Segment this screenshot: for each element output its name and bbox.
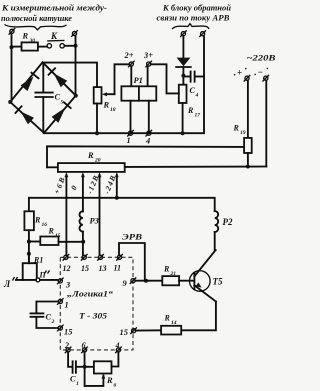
node -24V joins supply line	[115, 196, 119, 200]
terminal 3	[57, 278, 70, 290]
terminal 11	[114, 254, 123, 273]
svg-text:19: 19	[240, 130, 246, 136]
svg-text:13: 13	[99, 264, 107, 273]
terminal 4	[145, 130, 152, 146]
wire R16 bottom / node to R15	[28, 230, 30, 263]
svg-text:Р2: Р2	[223, 217, 233, 227]
wire R21 to T5 base	[179, 280, 193, 282]
wire R30 left lead	[12, 46, 22, 48]
wire VD5 cathode down to R17	[182, 67, 184, 85]
wire R17 bottom to minus rail	[182, 103, 184, 133]
supply line -24V to relay P2	[29, 198, 215, 211]
svg-text:Т - 305: Т - 305	[79, 312, 107, 321]
svg-text:R: R	[103, 101, 110, 110]
svg-text:4: 4	[195, 93, 199, 99]
svg-text:4: 4	[145, 137, 150, 146]
capacitor C1	[70, 361, 85, 387]
wire terminal 9 to R21	[135, 280, 162, 282]
svg-text:1: 1	[76, 381, 79, 387]
terminal 3+	[143, 51, 153, 67]
svg-text:R: R	[187, 106, 194, 115]
svg-text:ЭРВ: ЭРВ	[122, 233, 143, 242]
svg-text:R: R	[87, 151, 94, 160]
resistor R19	[233, 124, 252, 154]
wire terminal 2 down to C1	[68, 352, 72, 367]
R18 wiper arrow	[106, 93, 115, 95]
svg-text:15: 15	[120, 328, 128, 337]
svg-text:20: 20	[94, 158, 101, 164]
resistor R17	[179, 85, 200, 119]
svg-text:К блоку обратной: К блоку обратной	[162, 3, 231, 13]
wire R30 to switch	[38, 46, 47, 48]
terminal 4 bottom	[115, 341, 122, 353]
resistor R20	[47, 151, 125, 172]
wire R19 bottom to lower rail	[247, 153, 249, 167]
wire node to R6	[85, 366, 94, 368]
svg-text:6: 6	[82, 341, 86, 350]
diode VD2 upper-right	[54, 73, 68, 87]
terminal mains plus	[244, 75, 251, 82]
resistor R30	[22, 42, 38, 50]
svg-text:R: R	[163, 265, 170, 274]
svg-text:18: 18	[110, 107, 116, 113]
svg-text:R: R	[106, 376, 113, 385]
relay coil P2	[215, 211, 233, 250]
svg-text:11: 11	[114, 264, 122, 273]
svg-text:−: −	[258, 67, 263, 77]
svg-text:Р1: Р1	[134, 76, 143, 85]
node bridge right	[74, 94, 78, 98]
terminal X1 to measuring coil	[9, 28, 16, 35]
variable resistor R1 link assembly	[3, 254, 58, 289]
tap -12V from R20	[85, 172, 101, 255]
tap 0 from R20	[69, 172, 85, 212]
svg-text:4: 4	[115, 341, 120, 350]
rheostat R18	[94, 87, 116, 113]
terminal X2 above switch node	[71, 30, 78, 37]
wire 2+ down to relay P1 coil a	[130, 66, 132, 86]
svg-text:15: 15	[81, 264, 89, 273]
diode VD1 upper-left	[21, 77, 34, 92]
diode VD3 lower-left	[21, 111, 35, 124]
wire terminal 6 down to node	[84, 352, 86, 367]
wire R18 bottom to minus rail	[96, 104, 98, 134]
diode bridge VD1-VD4	[8, 62, 78, 133]
svg-text:R: R	[164, 314, 171, 323]
transistor T5	[190, 250, 223, 301]
svg-text:2: 2	[64, 341, 69, 350]
node ERV joins base wire	[144, 279, 148, 283]
R6 wiper loop	[85, 367, 106, 386]
wire T5 emitter down to R14 level	[181, 302, 216, 331]
svg-text:1: 1	[65, 301, 69, 310]
resistor R16	[24, 198, 47, 230]
node bridge left	[8, 100, 12, 104]
capacitor C5	[35, 63, 63, 133]
svg-text:1: 1	[127, 136, 131, 145]
svg-text:связи по току АРВ: связи по току АРВ	[157, 13, 230, 23]
svg-text:R: R	[34, 216, 41, 225]
svg-text:3+: 3+	[143, 51, 153, 60]
wire ERV terminal 11 riser	[119, 233, 145, 281]
SECTION: top-right annotation	[157, 3, 232, 30]
terminal 13	[97, 254, 106, 273]
wire mains plus down to R19	[247, 80, 249, 137]
tap +6V from R20	[52, 172, 68, 255]
diode VD4 lower-right	[52, 108, 66, 123]
resistor R14	[161, 314, 181, 335]
node junction switch/terminal	[74, 44, 78, 48]
diode VD5	[176, 58, 191, 67]
svg-text:5: 5	[61, 100, 64, 106]
terminal 9	[123, 277, 137, 288]
svg-text:„Логика1“: „Логика1“	[67, 289, 114, 299]
wire 3+ to R17 side tap	[151, 64, 179, 93]
svg-text:~220В: ~220В	[247, 54, 277, 63]
terminal 2	[64, 341, 71, 353]
bridge frame wires	[10, 62, 76, 133]
SECTION: mains label	[234, 54, 276, 78]
relay P1 coils	[121, 76, 156, 101]
node C1 / terminal 6 / R6 wiper	[83, 365, 87, 369]
svg-text:17: 17	[195, 113, 201, 119]
terminal mains minus	[263, 75, 270, 82]
wire switch to node	[64, 45, 75, 47]
svg-text:6: 6	[114, 383, 117, 389]
terminal 12	[63, 254, 71, 273]
SECTION: top-left annotation	[1, 3, 107, 30]
capacitor C4	[185, 72, 204, 99]
potentiometer R6	[94, 361, 117, 388]
svg-text:14: 14	[171, 320, 177, 326]
wire bridge plus rail to R18	[43, 63, 97, 88]
svg-text:15: 15	[64, 328, 72, 337]
resistor R15	[29, 227, 83, 246]
wire 3+ down to relay P1 coil b	[147, 66, 149, 86]
svg-text:2: 2	[51, 319, 55, 325]
tap -24V from R20	[102, 172, 119, 198]
svg-text:R: R	[22, 32, 29, 41]
terminal 2+	[124, 51, 135, 67]
wire P1a down to terminal 1	[130, 101, 132, 134]
svg-text:16: 16	[42, 222, 48, 228]
svg-text:R: R	[233, 124, 240, 133]
svg-text:+: +	[237, 68, 242, 78]
svg-text:К измерительной между-: К измерительной между-	[1, 3, 107, 13]
terminal X4 feedback block b	[199, 30, 206, 37]
minus rail of rectifier section	[44, 36, 204, 133]
wire terminal 4 down to R6 right	[112, 352, 119, 366]
svg-text:Т5: Т5	[213, 277, 223, 287]
wire mains minus down to lower rail	[265, 80, 267, 166]
terminal 15 left	[57, 325, 72, 337]
node R15 joins 0-line	[81, 240, 85, 244]
svg-text:15: 15	[55, 233, 61, 239]
node junction VD5/C4	[181, 74, 185, 78]
wire link R20 left to R19 left	[47, 146, 244, 167]
wire R14 to terminal 15 right	[136, 329, 161, 331]
resistor R21	[162, 265, 179, 286]
wire X3 down to diode VD5	[182, 36, 184, 58]
terminal 15 top	[81, 254, 89, 273]
terminal X3 feedback block a	[180, 30, 187, 37]
svg-text:К: К	[50, 31, 58, 41]
svg-text:R: R	[48, 227, 55, 236]
lower rail R20 right to mains minus	[125, 166, 267, 168]
node junction at R30 tap	[10, 45, 14, 49]
wire X1 down to bridge left node	[11, 34, 13, 102]
wire R18 wiper up to terminal 2+	[115, 64, 130, 94]
switch K	[47, 31, 64, 48]
svg-text:3: 3	[65, 281, 70, 290]
svg-text:полюсной катушке: полюсной катушке	[1, 13, 72, 23]
svg-text:2+: 2+	[124, 51, 134, 60]
wire X2 down to bridge right node	[75, 36, 77, 96]
capacitor C2 loop	[31, 302, 59, 329]
terminal 1 left	[57, 298, 69, 309]
svg-text:30: 30	[29, 38, 36, 44]
relay coil P3	[80, 211, 99, 255]
terminal 6	[81, 341, 88, 353]
wire P1b down to terminal 4	[148, 101, 150, 134]
svg-text:12: 12	[63, 264, 71, 273]
terminal 15 right	[120, 327, 137, 337]
terminal 1	[127, 130, 134, 145]
svg-text:Л: Л	[3, 279, 11, 289]
dashed block Logika T-305	[60, 257, 133, 350]
svg-text:Р3: Р3	[90, 217, 99, 226]
svg-text:21: 21	[170, 271, 177, 277]
